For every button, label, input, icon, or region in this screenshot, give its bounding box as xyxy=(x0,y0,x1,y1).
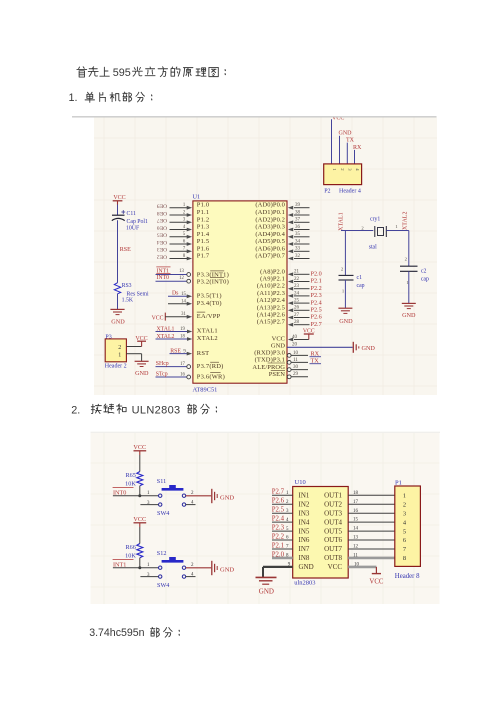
wire P3 pin 2 xyxy=(126,346,141,348)
svg-text:INT0: INT0 xyxy=(157,275,170,281)
pin 10 (RXD)P3.0 with net label RX xyxy=(254,349,321,357)
svg-text:37: 37 xyxy=(295,218,301,223)
svg-text:IN3: IN3 xyxy=(299,509,310,517)
pin 1 P1.0 with net label OE9 xyxy=(157,202,210,210)
svg-text:(AD1)P0.1: (AD1)P0.1 xyxy=(255,209,285,216)
svg-text:1: 1 xyxy=(118,352,121,358)
svg-text:SW4: SW4 xyxy=(157,582,169,589)
svg-text:6: 6 xyxy=(403,537,406,544)
wire VCC to P2 pin 1 xyxy=(331,119,333,164)
svg-text:IN4: IN4 xyxy=(299,518,310,526)
svg-text:3: 3 xyxy=(403,510,406,517)
svg-text:XTAL2: XTAL2 xyxy=(403,212,409,231)
pin 14 P3.4(T0) xyxy=(168,299,222,307)
document heading line 3: 2. 按键和 ULN2803 部分: xyxy=(71,404,216,416)
svg-text:Header 8: Header 8 xyxy=(395,573,420,580)
pin 31 EA/VPP with VCC tie xyxy=(152,312,221,321)
svg-text:P2.3: P2.3 xyxy=(311,292,322,299)
svg-text:P2.1: P2.1 xyxy=(272,542,284,549)
pin 32 (AD7)P0.7 xyxy=(255,253,309,261)
node junction (INT0) xyxy=(138,494,141,497)
svg-text:15: 15 xyxy=(181,292,186,297)
pin 27 (A14)P2.6 with net label P2.6 xyxy=(257,312,322,321)
svg-text:(AD2)P0.2: (AD2)P0.2 xyxy=(255,216,285,223)
document heading line 4: 3.74hc595n 部分: xyxy=(89,627,179,639)
svg-text:R66: R66 xyxy=(125,544,135,551)
svg-text:2: 2 xyxy=(403,501,406,508)
svg-text:P2.2: P2.2 xyxy=(311,285,322,292)
svg-text:35: 35 xyxy=(295,232,301,237)
svg-text:2: 2 xyxy=(118,345,121,351)
svg-text:27: 27 xyxy=(294,313,300,318)
svg-text:Ds: Ds xyxy=(172,291,179,297)
svg-text:P2.5: P2.5 xyxy=(272,507,285,514)
svg-text:(A8)P2.0: (A8)P2.0 xyxy=(260,268,285,275)
ground GND (switch S11) xyxy=(212,489,235,503)
svg-text:10UF: 10UF xyxy=(126,226,140,232)
capacitor c2 cap xyxy=(400,257,429,285)
pin 13 P3.3(INT1) with net label INT1 xyxy=(156,267,229,279)
svg-text:38: 38 xyxy=(295,210,301,215)
pin 7 P1.6 with net label OE3 xyxy=(157,245,210,253)
resistor R66 10K xyxy=(125,544,143,560)
document heading line 1: 首先上 595 光立方的原理图: xyxy=(77,67,225,79)
svg-text:XTAL1: XTAL1 xyxy=(157,326,175,332)
svg-text:GND: GND xyxy=(271,342,285,349)
wire c1 to ground xyxy=(344,280,346,308)
svg-text:(A9)P2.1: (A9)P2.1 xyxy=(260,276,285,283)
svg-text:OUT5: OUT5 xyxy=(324,527,342,535)
wire R66 to node xyxy=(139,558,141,568)
pin 22 (A9)P2.1 with net label P2.1 xyxy=(260,276,322,285)
pin 36 (AD3)P0.3 xyxy=(255,224,309,232)
svg-text:22: 22 xyxy=(294,277,300,282)
pin 24 (A11)P2.3 with net label P2.3 xyxy=(257,290,322,299)
pin 29 PSEN xyxy=(269,370,308,378)
wire c2 to ground xyxy=(408,271,410,303)
svg-text:25: 25 xyxy=(294,299,300,304)
pin 18 OUT1 wire to P1 pin 1 xyxy=(324,491,395,500)
svg-text:8: 8 xyxy=(403,555,406,562)
svg-text:P1: P1 xyxy=(395,479,402,486)
svg-text:P2.4: P2.4 xyxy=(272,516,285,523)
svg-text:16: 16 xyxy=(353,509,359,514)
ground GND (c2) xyxy=(402,303,416,319)
svg-text:(AD0)P0.0: (AD0)P0.0 xyxy=(255,202,285,209)
svg-text:14: 14 xyxy=(353,527,359,532)
svg-text:IN8: IN8 xyxy=(299,554,310,562)
svg-text:OE9: OE9 xyxy=(157,203,167,209)
svg-text:OUT6: OUT6 xyxy=(324,536,342,544)
wire net RSE xyxy=(117,220,119,282)
svg-text:10: 10 xyxy=(293,351,299,356)
wire VCC to R66 xyxy=(139,527,141,544)
svg-text:18: 18 xyxy=(180,335,185,340)
svg-text:S11: S11 xyxy=(157,478,166,485)
svg-text:P2.6: P2.6 xyxy=(272,498,285,505)
chip U1 AT89C51 xyxy=(193,193,288,393)
pin 3 IN3 with net label P2.5 xyxy=(272,507,310,518)
wire switch lower pins xyxy=(140,576,195,578)
svg-text:P1.5: P1.5 xyxy=(197,238,210,245)
svg-text:P1.6: P1.6 xyxy=(197,245,210,252)
pin 4 IN4 with net label P2.4 xyxy=(272,516,310,527)
pin 12 OUT7 wire to P1 pin 7 xyxy=(324,545,395,554)
ground GND (c1) xyxy=(338,308,353,325)
pin 13 OUT6 wire to P1 pin 6 xyxy=(324,536,395,545)
switch S12 SW4 xyxy=(147,550,194,589)
pin 15 OUT4 wire to P1 pin 4 xyxy=(324,518,395,527)
wire crystal pin 1 to XTAL2 xyxy=(386,231,409,267)
svg-text:36: 36 xyxy=(295,225,301,230)
svg-text:Cap Pol1: Cap Pol1 xyxy=(127,219,149,225)
svg-text:SHcp: SHcp xyxy=(156,361,169,367)
pin 40 VCC with power VCC symbol xyxy=(272,328,315,342)
svg-text:STcp: STcp xyxy=(156,372,168,378)
crystal cry1 stal xyxy=(369,216,387,250)
svg-text:12: 12 xyxy=(353,545,359,550)
svg-text:IN5: IN5 xyxy=(299,527,310,535)
pin 1 IN1 with net label P2.7 xyxy=(272,489,310,500)
svg-text:U1: U1 xyxy=(193,193,201,200)
pin 17 P3.7(RD) with net label SHcp xyxy=(156,361,224,370)
wire XTAL1 to crystal pin 2 xyxy=(341,231,373,276)
svg-text:P1.0: P1.0 xyxy=(197,202,210,209)
pin 39 (AD0)P0.0 xyxy=(255,202,309,210)
svg-text:(A15)P2.7: (A15)P2.7 xyxy=(257,319,286,326)
pin 30 ALE/PROG xyxy=(252,363,308,372)
svg-text:17: 17 xyxy=(180,362,185,367)
svg-text:XTAL2: XTAL2 xyxy=(197,335,218,342)
svg-text:cap: cap xyxy=(357,283,365,289)
svg-text:10K: 10K xyxy=(125,480,136,487)
svg-text:P3.2(INT0): P3.2(INT0) xyxy=(197,278,229,285)
svg-text:Header 4: Header 4 xyxy=(339,188,361,194)
svg-text:XTAL1: XTAL1 xyxy=(197,328,218,335)
connector P1 Header 8 xyxy=(395,479,421,580)
wire switch lower pins xyxy=(140,504,195,506)
pin 26 (A13)P2.5 with net label P2.5 xyxy=(257,304,322,313)
power VCC (P3 pin 2) xyxy=(135,336,147,347)
svg-text:31: 31 xyxy=(181,312,186,317)
svg-text:21: 21 xyxy=(294,270,300,275)
svg-text:OUT4: OUT4 xyxy=(324,518,342,526)
pin 9 GND wire to ground xyxy=(263,562,314,577)
svg-text:1.: 1. xyxy=(69,92,78,104)
power VCC (reset branch) xyxy=(113,195,126,204)
pin 37 (AD2)P0.2 xyxy=(255,216,309,224)
svg-text:(AD4)P0.4: (AD4)P0.4 xyxy=(255,231,285,238)
svg-text:P2.2: P2.2 xyxy=(272,533,285,540)
svg-text:P3.5(T1): P3.5(T1) xyxy=(197,293,222,300)
svg-text:U10: U10 xyxy=(295,479,306,486)
svg-text:GND: GND xyxy=(220,566,234,573)
pin 38 (AD1)P0.1 xyxy=(255,209,309,217)
pin 19 XTAL1 with net label XTAL1 xyxy=(156,326,218,334)
svg-text:c1: c1 xyxy=(357,275,363,281)
wire P3 pin 1 xyxy=(126,354,141,362)
svg-text:OUT3: OUT3 xyxy=(324,509,342,517)
pin 8 IN8 with net label P2.0 xyxy=(272,551,310,562)
pin 25 (A12)P2.4 with net label P2.4 xyxy=(257,297,322,306)
wire switch pin 2 to ground xyxy=(186,567,212,569)
svg-text:P1.4: P1.4 xyxy=(197,231,210,238)
svg-text:GND: GND xyxy=(299,563,314,571)
svg-text:P1.7: P1.7 xyxy=(197,253,210,260)
svg-text:VCC: VCC xyxy=(303,328,315,334)
svg-text:cap: cap xyxy=(421,276,429,282)
svg-text:OUT8: OUT8 xyxy=(324,554,342,562)
svg-text:GND: GND xyxy=(402,312,416,319)
svg-text:RSE: RSE xyxy=(120,247,131,253)
pin 8 P1.7 with net label OE2 xyxy=(157,253,210,261)
svg-text:15: 15 xyxy=(353,518,359,523)
svg-text:VCC: VCC xyxy=(152,315,164,321)
pin 10 VCC with power VCC symbol xyxy=(328,562,384,585)
svg-text:23: 23 xyxy=(294,284,300,289)
svg-text:SW4: SW4 xyxy=(157,510,169,517)
svg-text:OUT1: OUT1 xyxy=(324,492,342,500)
svg-text:AT89C51: AT89C51 xyxy=(193,386,218,393)
capacitor c1 cap xyxy=(339,266,365,293)
pin 16 P3.6(WR) with net label STcp xyxy=(156,372,225,381)
svg-text:32: 32 xyxy=(295,254,301,259)
connector P2 Header 4 xyxy=(324,164,362,195)
svg-text:P2.6: P2.6 xyxy=(311,314,322,321)
svg-text:P3.7(RD): P3.7(RD) xyxy=(197,363,224,370)
svg-text:5: 5 xyxy=(403,528,406,535)
svg-text:Header 2: Header 2 xyxy=(105,364,127,370)
svg-text:S12: S12 xyxy=(157,550,167,557)
wire INT0 net to switch pin 1 xyxy=(113,495,158,497)
svg-text:1.5K: 1.5K xyxy=(122,298,134,304)
svg-text:12: 12 xyxy=(179,276,184,281)
node junction (INT1) xyxy=(138,566,141,569)
pin 34 (AD5)P0.5 xyxy=(255,238,309,246)
svg-text:OUT7: OUT7 xyxy=(324,545,342,553)
svg-text:RST: RST xyxy=(197,350,210,357)
svg-text:P2.7: P2.7 xyxy=(311,321,322,328)
pin 11 (TXD)P3.1 with net label TX xyxy=(255,356,321,364)
pin 6 IN6 with net label P2.2 xyxy=(272,533,310,544)
svg-text:(AD3)P0.3: (AD3)P0.3 xyxy=(255,224,285,231)
svg-text:P3.4(T0): P3.4(T0) xyxy=(197,300,222,307)
connector P3 Header 2 xyxy=(105,334,127,369)
pin 23 (A10)P2.2 with net label P2.2 xyxy=(257,283,322,292)
pin 9 RST with net label RSE xyxy=(170,348,210,356)
svg-text:40: 40 xyxy=(292,335,298,340)
wire switch pin 2 to ground xyxy=(186,495,212,497)
pin 21 (A8)P2.0 with net label P2.0 xyxy=(260,268,322,277)
svg-text:PSEN: PSEN xyxy=(269,371,286,378)
net label INT0 xyxy=(113,488,134,497)
wire VCC to R65 xyxy=(139,455,141,472)
svg-text:VCC: VCC xyxy=(369,579,383,586)
svg-text:P1.2: P1.2 xyxy=(197,216,210,223)
svg-text:(TXD)P3.1: (TXD)P3.1 xyxy=(255,356,285,363)
wire GND to P2 pin 2 xyxy=(339,136,341,164)
svg-text:P2.7: P2.7 xyxy=(272,489,285,496)
svg-text:33: 33 xyxy=(295,247,301,252)
pin 2 P1.1 with net label OE8 xyxy=(157,209,210,217)
switch S11 SW4 xyxy=(147,478,194,517)
svg-text:19: 19 xyxy=(180,327,185,332)
svg-text:RSE: RSE xyxy=(170,348,181,354)
pin 33 (AD6)P0.6 xyxy=(255,245,309,253)
wire RX to P2 pin 4 xyxy=(354,150,356,164)
ground GND (reset branch) xyxy=(110,309,125,325)
power VCC (header P2, clipped at image edge) xyxy=(332,116,344,122)
wire R65 to node xyxy=(139,486,141,496)
svg-text:uln2803: uln2803 xyxy=(294,579,315,586)
svg-text:24: 24 xyxy=(294,291,300,296)
svg-text:10: 10 xyxy=(354,562,360,567)
pin 28 (A15)P2.7 with net label P2.7 xyxy=(257,319,322,328)
svg-text:P2.5: P2.5 xyxy=(311,307,322,314)
document heading line 2: 1. 单片机部分: xyxy=(69,92,152,104)
svg-text:c2: c2 xyxy=(421,269,427,275)
pin 17 OUT2 wire to P1 pin 2 xyxy=(324,500,395,509)
svg-text:GND: GND xyxy=(135,370,149,377)
svg-text:17: 17 xyxy=(353,500,359,505)
svg-text:stal: stal xyxy=(369,245,377,251)
pin 5 P1.4 with net label OE5 xyxy=(157,231,210,239)
wire RS3 to ground xyxy=(117,294,119,310)
pin 3 P1.2 with net label OE7 xyxy=(157,216,210,224)
svg-text:13: 13 xyxy=(353,536,359,541)
svg-text:26: 26 xyxy=(294,306,300,311)
svg-text:28: 28 xyxy=(294,320,300,325)
svg-text:GND: GND xyxy=(220,494,234,501)
svg-text:3.74hc595n: 3.74hc595n xyxy=(89,627,144,639)
svg-text:XTAL1: XTAL1 xyxy=(339,212,345,231)
svg-text:OE8: OE8 xyxy=(157,210,167,216)
svg-text:1: 1 xyxy=(403,493,406,500)
svg-text:(AD7)P0.7: (AD7)P0.7 xyxy=(255,253,285,260)
svg-text:595: 595 xyxy=(113,67,131,79)
svg-text:IN6: IN6 xyxy=(299,536,310,544)
svg-text:IN1: IN1 xyxy=(299,492,310,500)
svg-text:IN7: IN7 xyxy=(299,545,310,553)
pin 6 P1.5 with net label OE4 xyxy=(157,238,210,246)
pin 2 IN2 with net label P2.6 xyxy=(272,498,310,509)
svg-text:(AD5)P0.5: (AD5)P0.5 xyxy=(255,238,285,245)
svg-text:(A14)P2.6: (A14)P2.6 xyxy=(257,312,286,319)
svg-text:IN2: IN2 xyxy=(299,500,310,508)
capacitor C11 Cap Pol1 10UF xyxy=(112,210,148,232)
power VCC (R65 branch) xyxy=(133,444,146,455)
svg-text:(A12)P2.4: (A12)P2.4 xyxy=(257,297,286,304)
svg-text:XTAL2: XTAL2 xyxy=(157,334,175,340)
svg-text:P2: P2 xyxy=(324,188,330,194)
svg-text:(RXD)P3.0: (RXD)P3.0 xyxy=(254,349,285,356)
svg-text:P2.0: P2.0 xyxy=(272,551,285,558)
svg-text:(A13)P2.5: (A13)P2.5 xyxy=(257,304,285,311)
wire INT1 net to switch pin 1 xyxy=(113,567,158,569)
svg-text:P2.0: P2.0 xyxy=(311,271,322,278)
net label INT1 xyxy=(113,560,134,569)
svg-text:16: 16 xyxy=(180,372,185,377)
svg-text:11: 11 xyxy=(353,554,358,559)
svg-text:GND: GND xyxy=(339,318,353,325)
svg-text:GND: GND xyxy=(111,318,125,325)
svg-text:30: 30 xyxy=(293,365,299,370)
svg-text:OUT2: OUT2 xyxy=(324,500,342,508)
svg-text:GND: GND xyxy=(259,588,274,596)
svg-text:11: 11 xyxy=(293,358,298,363)
wire TX to P2 pin 3 xyxy=(346,143,348,164)
pin 18 XTAL2 with net label XTAL2 xyxy=(156,334,218,342)
svg-text:2.: 2. xyxy=(71,405,80,417)
ground GND (U10 pin 9) xyxy=(256,577,277,595)
svg-text:(A10)P2.2: (A10)P2.2 xyxy=(257,283,285,290)
resistor RS3 Res Semi 1.5K xyxy=(114,283,149,304)
svg-text:ULN2803: ULN2803 xyxy=(132,405,181,417)
svg-text:10K: 10K xyxy=(125,552,136,559)
pin 20 GND: wire to power-bar ground xyxy=(271,342,376,353)
pin 5 IN5 with net label P2.3 xyxy=(272,525,310,536)
svg-text:R65: R65 xyxy=(125,472,135,479)
power VCC (R66 branch) xyxy=(133,516,146,527)
svg-text:RS3: RS3 xyxy=(122,283,132,289)
svg-text:VCC: VCC xyxy=(328,563,343,571)
svg-text:P1.1: P1.1 xyxy=(197,209,210,216)
svg-text:29: 29 xyxy=(293,372,299,377)
pin 12 P3.2(INT0) with net label INT0 xyxy=(156,274,229,286)
pin 16 OUT3 wire to P1 pin 3 xyxy=(324,509,395,518)
svg-text:P3.6(WR): P3.6(WR) xyxy=(197,373,225,380)
svg-text:ALE/PROG: ALE/PROG xyxy=(252,364,285,371)
svg-text:18: 18 xyxy=(353,491,359,496)
pin 14 OUT5 wire to P1 pin 5 xyxy=(324,527,395,536)
svg-text:14: 14 xyxy=(181,299,186,304)
pin 15 P3.5(T1) with net label Ds xyxy=(168,291,222,300)
svg-text:34: 34 xyxy=(295,239,301,244)
svg-text:OE3: OE3 xyxy=(157,246,167,252)
chip U10 uln2803 xyxy=(293,479,349,586)
svg-text:(A11)P2.3: (A11)P2.3 xyxy=(257,290,285,297)
svg-text:P2.4: P2.4 xyxy=(311,299,322,306)
svg-text:P2.1: P2.1 xyxy=(311,278,322,285)
svg-text:GND: GND xyxy=(339,130,353,136)
svg-text:13: 13 xyxy=(179,269,184,274)
pin 35 (AD4)P0.4 xyxy=(255,231,309,239)
svg-text:39: 39 xyxy=(295,203,301,208)
svg-text:OE2: OE2 xyxy=(157,253,167,259)
pin 7 IN7 with net label P2.1 xyxy=(272,542,310,553)
pin 4 P1.3 with net label OE6 xyxy=(157,224,210,232)
svg-text:(AD6)P0.6: (AD6)P0.6 xyxy=(255,245,285,252)
svg-text:cry1: cry1 xyxy=(370,216,380,222)
svg-text:OE7: OE7 xyxy=(157,217,167,223)
wire VCC to C11 xyxy=(117,205,119,216)
svg-text:P1.3: P1.3 xyxy=(197,224,210,231)
pin 11 OUT8 wire to P1 pin 8 xyxy=(324,554,395,563)
svg-text:OE6: OE6 xyxy=(157,224,167,230)
ground GND (switch S12) xyxy=(212,561,235,575)
svg-text:EA/VPP: EA/VPP xyxy=(197,313,221,320)
svg-text:OE5: OE5 xyxy=(157,232,167,238)
svg-text:OE4: OE4 xyxy=(157,239,167,245)
svg-text:C11: C11 xyxy=(127,211,137,217)
ground GND (P3 pin 1) xyxy=(135,361,149,377)
svg-text:P2.3: P2.3 xyxy=(272,525,285,532)
svg-text:GND: GND xyxy=(362,345,376,352)
resistor R65 10K xyxy=(125,472,143,488)
